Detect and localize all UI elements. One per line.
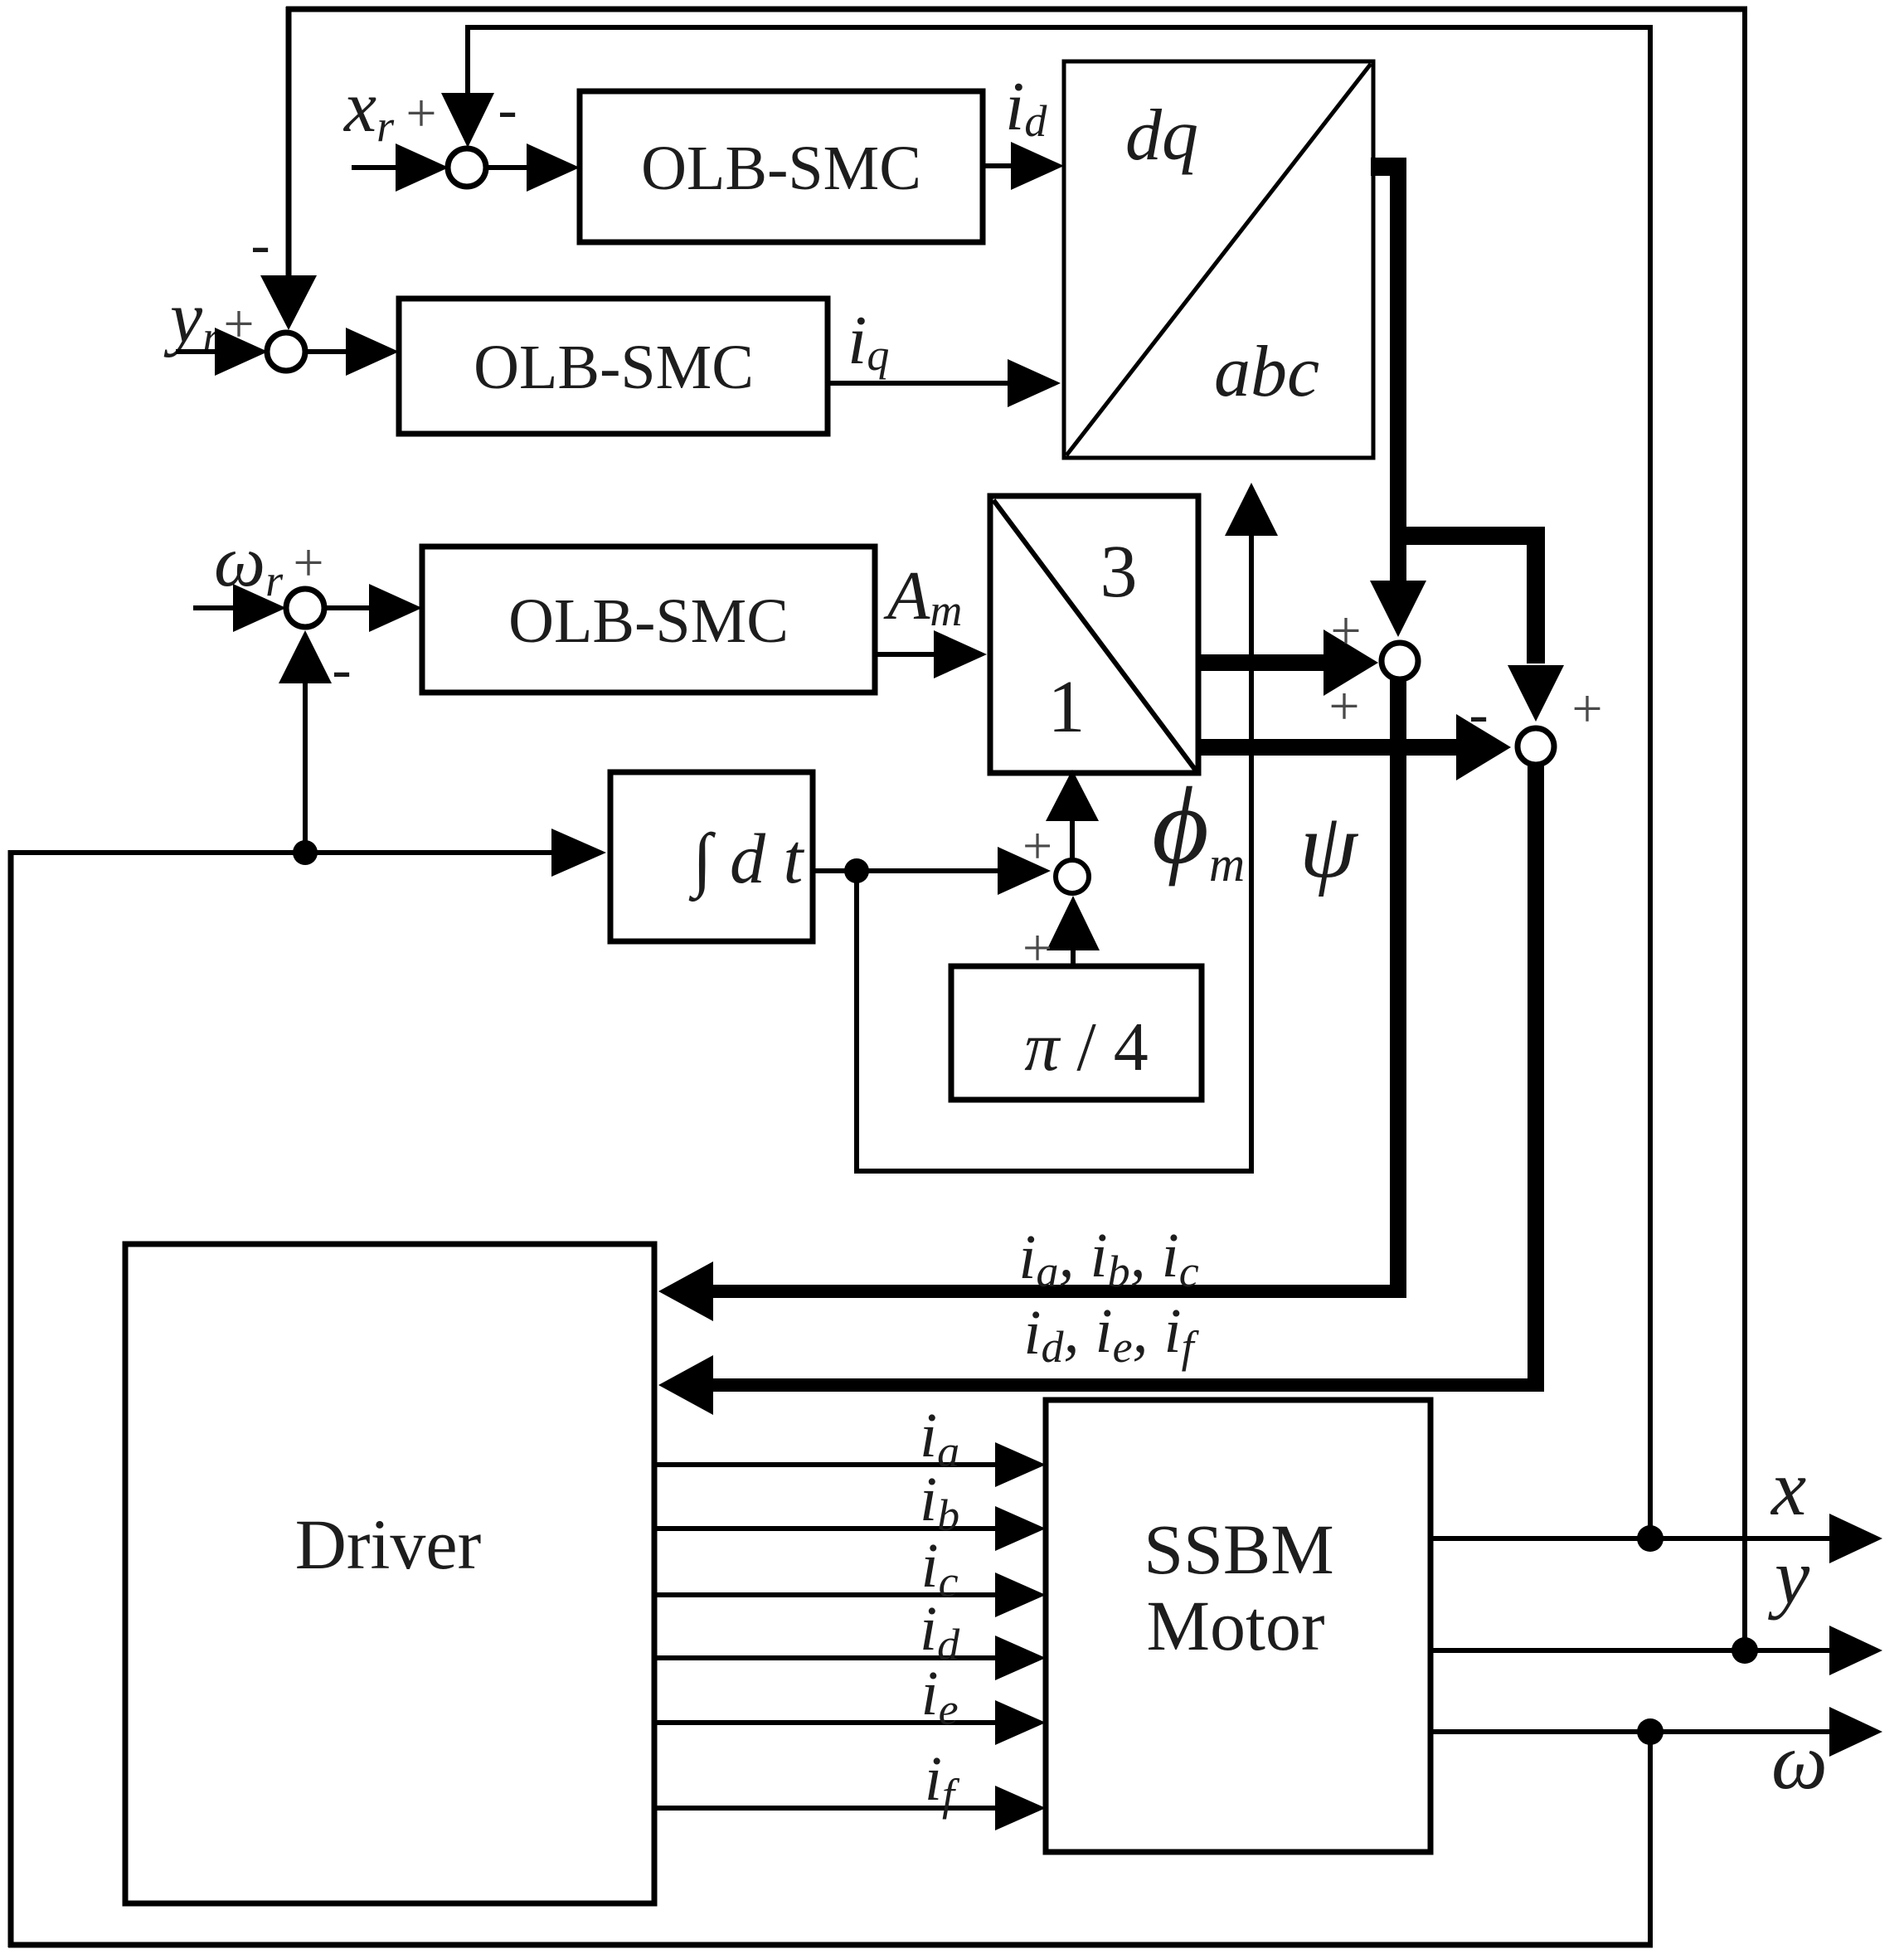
arrowhead id into dq block: [1011, 142, 1064, 190]
arrowhead id into motor: [995, 1636, 1046, 1680]
wire omega feedback to integrator: [8, 850, 556, 855]
arrowhead into sum3: [998, 847, 1051, 895]
svg-text:ω: ω: [1771, 1717, 1828, 1806]
svg-text:+: +: [1022, 816, 1052, 875]
arrowhead into OLB-SMC 1: [527, 143, 580, 192]
svg-text:-: -: [1469, 683, 1488, 746]
block pi/4: [951, 966, 1202, 1100]
arrowhead output y: [1829, 1626, 1882, 1675]
wire x-feedback right vertical: [1648, 25, 1653, 1537]
wire integrator output: [813, 868, 1003, 873]
arrowhead into OLB-SMC 2: [346, 328, 399, 376]
arrowhead into OLB-SMC 3: [369, 584, 422, 632]
svg-text:3: 3: [1100, 531, 1138, 613]
arrowhead into xr junction: [396, 143, 449, 192]
svg-text:+: +: [1330, 600, 1361, 661]
arrowhead sum3 into 3/1 block: [1046, 770, 1099, 821]
wire phi-m path bottom horizontal: [854, 1169, 1254, 1174]
wire id ie if bus to Driver: [710, 1378, 1544, 1392]
block dq/abc transform: [1064, 61, 1373, 458]
svg-text:1: 1: [1048, 666, 1086, 748]
wire ia ib ic bus to Driver: [710, 1285, 1406, 1298]
svg-text:y: y: [1768, 1533, 1810, 1621]
wire omega feedback up to omega-r junction: [303, 683, 308, 851]
wire xr junction to OLB-SMC 1: [484, 165, 532, 170]
arrowhead into yr junction: [215, 328, 268, 376]
block 3/1: [990, 496, 1198, 773]
svg-text:OLB-SMC: OLB-SMC: [641, 134, 921, 203]
block integrator: [610, 772, 813, 941]
arrowhead into omega-r junction: [233, 584, 286, 632]
arrowhead output omega: [1829, 1707, 1882, 1757]
arrowhead ia ib ic into Driver: [658, 1261, 713, 1321]
wire motor output y: [1430, 1648, 1833, 1653]
wire 3/1 lower output (thick): [1198, 739, 1460, 756]
wire omega-r junction to OLB-SMC 3: [323, 605, 373, 610]
wire 3/1 upper output (thick): [1198, 654, 1327, 671]
wire y-feedback right vertical: [1742, 7, 1747, 1649]
wire into omega-r junction: [193, 605, 239, 610]
summing junction xr: [448, 148, 486, 187]
block OLB-SMC 3: [422, 547, 875, 693]
wire thick branch to sum2 horizontal: [1390, 527, 1536, 545]
wire sum2 output thick vertical: [1528, 764, 1544, 1378]
wire y-feedback left vertical: [286, 7, 292, 277]
junction dot on y output line: [1732, 1637, 1758, 1664]
summing junction sum3: [1056, 860, 1089, 893]
svg-text:+: +: [1328, 676, 1359, 736]
block SSBM Motor: [1046, 1400, 1430, 1852]
wire into yr junction: [176, 349, 221, 354]
wire motor output x: [1430, 1536, 1833, 1541]
wire Driver to motor ic: [654, 1592, 998, 1597]
wire Am to 3/1 block: [875, 652, 937, 657]
wire Driver to motor if: [654, 1806, 998, 1811]
arrowhead into integrator: [551, 829, 606, 877]
summing junction omega-r: [286, 589, 324, 627]
junction dot on x output line: [1637, 1525, 1664, 1552]
arrowhead ia into motor: [995, 1442, 1046, 1487]
summing junction yr: [267, 333, 305, 371]
arrowhead down into junction sum1: [1370, 581, 1426, 637]
svg-text:x: x: [1770, 1444, 1806, 1532]
junction dot on omega output line: [1637, 1718, 1664, 1745]
wire Driver to motor id: [654, 1655, 998, 1660]
block Driver: [125, 1244, 654, 1903]
arrowhead into junction sum2: [1456, 714, 1511, 780]
arrowhead id ie if into Driver: [658, 1355, 713, 1415]
arrowhead output x: [1829, 1514, 1882, 1563]
wire dq thick feedback vertical: [1390, 158, 1406, 582]
wire omega feedback down: [1648, 1732, 1653, 1942]
junction dot omega feedback branch: [293, 840, 318, 865]
wire OLB-SMC 1 to dq block: [983, 163, 1015, 168]
arrowhead up into omega-r junction: [279, 630, 332, 683]
arrowhead into junction sum1: [1324, 629, 1378, 696]
svg-text:OLB-SMC: OLB-SMC: [508, 586, 789, 656]
wire pi/4 up into sum3: [1071, 945, 1076, 966]
wire sum1 output thick vertical (psi bus): [1390, 678, 1406, 1285]
wire omega feedback bottom horizontal: [8, 1942, 1653, 1948]
wire yr junction to OLB-SMC 2: [304, 349, 352, 354]
wire thick branch to sum2 vertical: [1527, 527, 1545, 663]
arrowhead iq into dq block: [1008, 359, 1061, 407]
svg-text:SSBM: SSBM: [1144, 1509, 1334, 1589]
svg-text:-: -: [332, 638, 351, 702]
svg-text:+: +: [406, 83, 436, 143]
arrowhead down into yr junction: [260, 275, 317, 330]
svg-text:Motor: Motor: [1147, 1586, 1325, 1665]
arrowhead pi/4 into sum3: [1047, 896, 1100, 950]
arrowhead ic into motor: [995, 1572, 1046, 1617]
arrowhead ie into motor: [995, 1700, 1046, 1745]
wire y-feedback top horizontal: [286, 7, 1747, 12]
svg-text:Driver: Driver: [295, 1504, 481, 1584]
summing junction sum1: [1382, 643, 1418, 679]
arrowhead Am into 3/1 block: [934, 630, 987, 678]
arrowhead if into motor: [995, 1786, 1046, 1830]
wire dq thick output stub: [1371, 158, 1406, 176]
wire Driver to motor ib: [654, 1526, 998, 1531]
arrowhead ib into motor: [995, 1506, 1046, 1551]
wire motor output omega: [1430, 1729, 1833, 1734]
svg-text:+: +: [293, 532, 323, 593]
wire sum3 output up: [1070, 817, 1075, 861]
wire Driver to motor ia: [654, 1462, 998, 1467]
svg-text:∫ d t: ∫ d t: [688, 819, 805, 902]
block OLB-SMC 1: [580, 91, 983, 242]
svg-text:OLB-SMC: OLB-SMC: [474, 333, 754, 402]
junction dot integrator output: [844, 858, 869, 883]
svg-text:+: +: [1571, 678, 1602, 739]
arrowhead down into xr junction: [441, 93, 494, 148]
summing junction sum2: [1518, 728, 1554, 765]
svg-text:-: -: [250, 213, 270, 277]
wire Driver to motor ie: [654, 1720, 998, 1725]
wire x-feedback left vertical: [465, 25, 470, 95]
wire omega feedback left vertical: [8, 850, 14, 1947]
wire x-feedback top horizontal: [468, 25, 1653, 30]
wire iq to dq block: [828, 381, 1011, 386]
svg-text:π / 4: π / 4: [1024, 1009, 1148, 1086]
block OLB-SMC 2: [399, 299, 828, 434]
wire into xr junction: [352, 165, 400, 170]
wire phi-m path down: [854, 871, 859, 1169]
svg-text:dq: dq: [1125, 95, 1198, 176]
arrowhead phi-m up toward dq block: [1225, 483, 1278, 536]
wire phi-m path up vertical: [1249, 534, 1254, 1171]
svg-text:-: -: [498, 78, 517, 142]
svg-text:ψ: ψ: [1299, 795, 1359, 897]
arrowhead down into junction sum2: [1508, 665, 1564, 722]
svg-text:abc: abc: [1214, 332, 1319, 412]
